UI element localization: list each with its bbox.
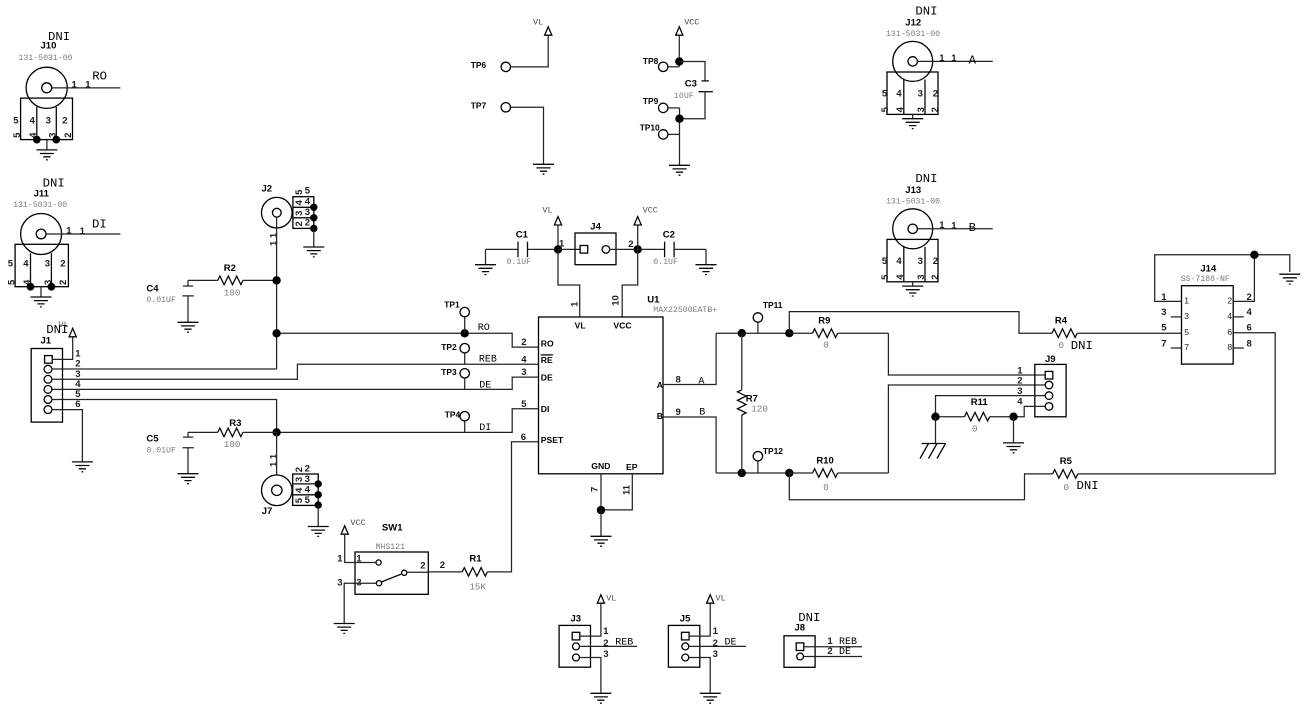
junction C3/ground node <box>675 115 683 123</box>
capacitor C2 0.1UF <box>638 230 706 268</box>
svg-text:VCC: VCC <box>643 205 658 215</box>
svg-text:C5: C5 <box>146 434 159 445</box>
svg-text:2: 2 <box>58 280 69 285</box>
ground at R11 <box>1003 443 1024 453</box>
svg-text:0: 0 <box>823 482 829 493</box>
test point TP2 <box>441 342 469 365</box>
wire U1 GND pin7 to ground <box>600 474 602 510</box>
svg-text:1 1: 1 1 <box>268 453 279 467</box>
ground at U1 <box>600 510 602 536</box>
svg-text:4: 4 <box>1017 397 1023 408</box>
wire VL rail to U1 pin1 <box>558 249 580 317</box>
test point TP11 <box>753 300 783 333</box>
ground at C2 <box>705 249 707 264</box>
ground at C4 <box>178 322 199 332</box>
svg-text:B: B <box>657 411 663 421</box>
svg-text:4: 4 <box>521 354 527 365</box>
svg-text:0.01UF: 0.01UF <box>146 447 176 456</box>
junction VL rail <box>554 245 562 253</box>
svg-text:5: 5 <box>1184 327 1189 337</box>
test point TP8 <box>643 56 679 72</box>
svg-text:2: 2 <box>933 89 938 100</box>
junction GND/EP <box>597 506 605 514</box>
svg-text:1 1: 1 1 <box>268 232 279 246</box>
svg-text:J14: J14 <box>1200 264 1217 275</box>
ground at SW1 <box>334 624 355 634</box>
junction A/TP11 <box>785 329 793 337</box>
svg-text:J3: J3 <box>571 613 582 624</box>
wire B bypass to R5 <box>789 473 1052 500</box>
junction R2/J2 node <box>272 276 280 284</box>
svg-text:3: 3 <box>1184 311 1189 321</box>
svg-text:A: A <box>969 54 977 68</box>
svg-text:VL: VL <box>716 594 726 604</box>
wire J2 pin1 vertical to RO net <box>276 217 278 369</box>
svg-text:MHS121: MHS121 <box>376 543 406 552</box>
svg-text:2: 2 <box>713 638 718 649</box>
capacitor C3 10UF <box>674 79 713 102</box>
svg-text:DI: DI <box>479 423 491 434</box>
svg-text:4: 4 <box>896 256 902 267</box>
junction A/R7 <box>738 329 746 337</box>
wire net DE (J1.4 / TP3 to U1 DE) <box>52 377 539 389</box>
svg-text:4: 4 <box>896 89 902 100</box>
svg-text:DNI: DNI <box>915 172 937 186</box>
svg-text:2: 2 <box>628 239 633 250</box>
svg-text:VCC: VCC <box>684 18 699 28</box>
wire J3 pin3 to ground <box>580 658 601 694</box>
svg-text:2: 2 <box>440 560 445 571</box>
svg-text:C4: C4 <box>146 284 159 295</box>
power VL at J5 <box>707 595 714 603</box>
svg-text:4: 4 <box>305 485 311 496</box>
resistor R5 0 DNI <box>1053 456 1099 493</box>
svg-text:3: 3 <box>46 115 51 126</box>
svg-text:5: 5 <box>13 115 19 126</box>
svg-text:5: 5 <box>880 274 891 280</box>
test point TP7 to ground <box>471 100 544 164</box>
wire SW1 pin3 to ground <box>344 583 376 623</box>
wire C3 to ground node <box>680 92 706 119</box>
junction B/R7 <box>738 469 746 477</box>
svg-text:8: 8 <box>676 375 681 386</box>
svg-text:8: 8 <box>1247 339 1252 350</box>
svg-text:3: 3 <box>713 649 718 660</box>
svg-text:1: 1 <box>66 226 72 237</box>
svg-text:2: 2 <box>63 133 74 138</box>
junction DI at R3 <box>272 428 280 436</box>
svg-text:3: 3 <box>916 275 927 280</box>
test point TP4 <box>445 409 470 432</box>
wire SW1 pin1 to VCC <box>345 534 376 562</box>
power VL at J3 <box>597 595 604 603</box>
svg-text:RO: RO <box>92 70 107 84</box>
wire J5 pin2 net DE <box>689 645 746 647</box>
junction RO at J2 column <box>272 329 280 337</box>
svg-text:TP7: TP7 <box>471 100 487 110</box>
jumper J4 <box>558 222 638 265</box>
svg-text:B: B <box>699 408 705 419</box>
svg-text:R4: R4 <box>1055 316 1068 327</box>
wire net REB (J1.3 / TP2 to U1 RE) <box>52 364 539 379</box>
svg-text:3: 3 <box>916 107 927 112</box>
svg-text:DE: DE <box>725 638 737 649</box>
svg-text:2: 2 <box>305 464 310 475</box>
svg-text:3: 3 <box>521 367 526 378</box>
svg-text:120: 120 <box>751 404 768 415</box>
power VCC at J4/C2 <box>634 217 641 225</box>
svg-text:R3: R3 <box>229 418 241 429</box>
svg-text:DNI: DNI <box>915 4 937 18</box>
connector J13 (BNC, DNI, 131-5031-00) net B <box>880 172 993 296</box>
svg-text:7: 7 <box>590 487 601 492</box>
svg-text:6: 6 <box>1247 323 1252 334</box>
svg-text:TP8: TP8 <box>643 56 659 66</box>
svg-text:1: 1 <box>85 80 91 91</box>
svg-text:1: 1 <box>337 554 343 565</box>
svg-text:3: 3 <box>918 89 923 100</box>
svg-text:C1: C1 <box>516 230 529 241</box>
wire J1 pin6 to ground <box>52 410 83 462</box>
svg-text:131-5031-00: 131-5031-00 <box>19 54 73 63</box>
svg-text:2: 2 <box>933 256 938 267</box>
wire R4 to J14 pin5 <box>1077 332 1181 334</box>
svg-text:3: 3 <box>305 207 310 218</box>
svg-text:J11: J11 <box>34 189 50 200</box>
svg-text:5: 5 <box>880 106 891 112</box>
svg-text:TP3: TP3 <box>441 367 457 377</box>
svg-text:R1: R1 <box>469 554 482 565</box>
test point TP9 <box>643 96 680 113</box>
svg-text:4: 4 <box>895 274 906 280</box>
connector J8 (2-pin header, DNI) <box>784 611 820 667</box>
svg-text:4: 4 <box>294 487 305 493</box>
svg-text:PSET: PSET <box>541 435 564 445</box>
svg-text:2: 2 <box>1017 375 1022 386</box>
connector J7 (SMB jack) <box>262 464 329 537</box>
svg-text:J8: J8 <box>795 623 806 634</box>
resistor R4 0 DNI <box>1052 316 1093 353</box>
wire net DI (J1.5 / J7 / TP4 to U1 DI) <box>52 400 277 433</box>
junction B/TP12 <box>785 469 793 477</box>
svg-text:4: 4 <box>1227 311 1232 321</box>
svg-text:2: 2 <box>62 115 67 126</box>
svg-text:J1: J1 <box>41 336 52 347</box>
svg-text:REB: REB <box>479 355 497 366</box>
wire J14 pin1 loop to ground <box>1155 255 1290 302</box>
resistor R9 0 <box>789 316 888 351</box>
test point TP6 to VL <box>471 35 548 71</box>
svg-text:TP10: TP10 <box>640 123 660 133</box>
wire U1 EP pin11 to ground <box>601 474 632 510</box>
svg-text:DNI: DNI <box>1077 479 1099 493</box>
wire J9 pin4 to R11 <box>1014 406 1046 416</box>
svg-text:2: 2 <box>294 221 305 226</box>
power VL at J1 <box>69 328 76 336</box>
svg-text:J13: J13 <box>905 185 921 196</box>
svg-text:0: 0 <box>1064 482 1070 493</box>
IC U1 MAX22500EATB+ <box>539 295 718 474</box>
resistor R2 100 <box>188 263 277 298</box>
svg-text:5: 5 <box>521 399 527 410</box>
svg-text:10UF: 10UF <box>674 92 694 101</box>
junction R11 left <box>931 413 939 421</box>
svg-text:DE: DE <box>541 373 553 383</box>
svg-text:4: 4 <box>895 106 906 112</box>
svg-text:0.01UF: 0.01UF <box>146 296 176 305</box>
wire J3 pin2 net REB <box>580 645 638 647</box>
svg-text:MAX22500EATB+: MAX22500EATB+ <box>653 306 717 315</box>
test point TP12 <box>753 446 783 473</box>
svg-text:5: 5 <box>294 189 305 195</box>
ground at J1 pin6 <box>72 462 93 472</box>
junction J14 ground net <box>1250 251 1258 259</box>
connector J12 (BNC, DNI, 131-5031-00) net A <box>880 4 993 128</box>
svg-text:J12: J12 <box>905 18 921 29</box>
svg-text:6: 6 <box>1227 327 1232 337</box>
svg-text:1: 1 <box>559 239 565 250</box>
svg-text:DI: DI <box>541 404 550 414</box>
test point TP10 <box>640 123 680 139</box>
resistor R1 15K <box>428 554 487 593</box>
svg-text:3: 3 <box>294 477 305 482</box>
svg-text:0: 0 <box>823 339 829 350</box>
svg-text:VCC: VCC <box>350 518 365 528</box>
wire DI to J7 <box>276 432 278 485</box>
wire A bypass to R4 <box>789 312 1052 334</box>
svg-text:9: 9 <box>676 407 681 418</box>
svg-text:SW1: SW1 <box>382 522 403 533</box>
svg-text:SS-7188-NF: SS-7188-NF <box>1181 275 1230 284</box>
svg-text:5: 5 <box>294 497 305 503</box>
resistor R10 0 <box>789 456 888 493</box>
svg-text:TP6: TP6 <box>471 60 487 70</box>
svg-text:TP4: TP4 <box>445 409 461 419</box>
svg-text:4: 4 <box>305 197 311 208</box>
wire J8 pin2 net DE <box>804 656 863 658</box>
svg-text:8: 8 <box>1227 342 1232 352</box>
svg-text:5: 5 <box>305 495 311 506</box>
svg-text:1: 1 <box>570 301 581 307</box>
svg-text:DE: DE <box>839 647 851 658</box>
svg-text:5: 5 <box>882 89 888 100</box>
ground at J14 <box>1279 274 1300 284</box>
svg-text:J10: J10 <box>41 40 57 51</box>
connector J5 (3-pin header) <box>668 613 718 667</box>
svg-text:5: 5 <box>8 258 14 269</box>
svg-text:R9: R9 <box>818 316 830 327</box>
svg-text:TP2: TP2 <box>441 342 457 352</box>
svg-text:5: 5 <box>305 186 311 197</box>
svg-text:3: 3 <box>1161 307 1166 318</box>
junction VCC/C3 <box>675 57 683 65</box>
power VL at TP6 <box>545 27 552 35</box>
svg-text:R2: R2 <box>224 263 236 274</box>
ground at TP7 <box>533 164 554 174</box>
svg-text:DNI: DNI <box>1071 339 1093 353</box>
svg-text:1: 1 <box>951 53 957 64</box>
svg-text:7: 7 <box>1161 339 1166 350</box>
wire J14 pin2 to ground net <box>1233 255 1254 302</box>
junction VCC rail <box>634 245 642 253</box>
wire U1 PSET to R1 <box>487 442 538 572</box>
capacitor C4 0.01UF <box>146 280 193 322</box>
connector J3 (3-pin header) <box>559 613 609 667</box>
svg-text:3: 3 <box>45 258 50 269</box>
connector J9 (4-pin header) <box>1017 354 1066 417</box>
svg-text:15K: 15K <box>469 581 486 592</box>
ground at C5 <box>178 474 199 484</box>
svg-text:5: 5 <box>882 256 888 267</box>
svg-text:3: 3 <box>337 578 342 589</box>
svg-text:1: 1 <box>951 221 957 232</box>
connector J1 (6-pin header, DNI) <box>31 320 81 422</box>
svg-text:J7: J7 <box>262 506 273 517</box>
svg-text:J2: J2 <box>262 184 273 195</box>
svg-text:2: 2 <box>827 646 832 657</box>
svg-text:131-5031-00: 131-5031-00 <box>886 30 940 39</box>
svg-text:2: 2 <box>603 638 608 649</box>
wire U1 A pin8 to bus <box>663 333 716 384</box>
svg-text:1: 1 <box>939 220 945 231</box>
capacitor C1 0.1UF <box>486 230 559 268</box>
svg-text:TP1: TP1 <box>444 300 460 310</box>
svg-text:6: 6 <box>75 399 80 410</box>
ground at C1 <box>485 249 487 264</box>
svg-text:R10: R10 <box>816 456 833 467</box>
connector J14 (SS-7188-NF) <box>1161 264 1252 365</box>
svg-text:1: 1 <box>1184 295 1189 305</box>
svg-text:2: 2 <box>1227 295 1232 305</box>
wire VCC to C3 <box>679 62 705 81</box>
capacitor C5 0.01UF <box>146 432 193 473</box>
resistor R11 0 <box>936 397 1014 434</box>
power VL at C1/J4 <box>554 217 561 225</box>
svg-text:2: 2 <box>294 467 305 472</box>
wire J3 pin1 to VL <box>580 603 601 636</box>
svg-text:2: 2 <box>521 337 526 348</box>
ground at TP10 <box>669 165 690 175</box>
svg-text:R11: R11 <box>971 397 989 408</box>
svg-text:3: 3 <box>918 256 923 267</box>
svg-text:RE: RE <box>541 355 553 365</box>
junction RO at TP1 <box>461 329 469 337</box>
svg-text:4: 4 <box>23 258 29 269</box>
svg-text:1: 1 <box>603 626 609 637</box>
wire R5 to J14 pin6 <box>1078 333 1275 474</box>
wire net RO (J1.2 / J2 / TP1 to U1 RO) <box>52 368 277 370</box>
wire J5 pin3 to ground <box>689 658 710 694</box>
svg-text:RO: RO <box>541 339 554 349</box>
svg-text:DE: DE <box>479 380 491 391</box>
svg-text:0.1UF: 0.1UF <box>653 258 678 267</box>
svg-text:U1: U1 <box>647 295 660 306</box>
chassis ground at R11 <box>920 444 946 459</box>
wire R11 right to ground <box>1013 417 1015 443</box>
svg-text:0.1UF: 0.1UF <box>507 258 532 267</box>
svg-text:100: 100 <box>224 287 241 298</box>
svg-text:2: 2 <box>420 560 425 571</box>
svg-text:2: 2 <box>930 275 941 280</box>
svg-text:1: 1 <box>939 53 945 64</box>
wire J9 pin3 to R11 <box>936 396 1046 417</box>
wire J5 pin1 to VL <box>689 603 710 636</box>
svg-text:3: 3 <box>603 649 608 660</box>
svg-text:R5: R5 <box>1060 456 1073 467</box>
svg-text:J5: J5 <box>680 613 691 624</box>
svg-text:VCC: VCC <box>613 320 631 330</box>
svg-text:11: 11 <box>621 484 632 495</box>
svg-text:2: 2 <box>930 107 941 112</box>
ground at J5 <box>700 693 721 703</box>
wire J8 pin1 net REB <box>804 646 862 648</box>
svg-text:4: 4 <box>294 199 305 205</box>
wire VCC rail to U1 pin10 <box>622 249 638 317</box>
svg-text:VL: VL <box>606 594 616 604</box>
svg-text:0: 0 <box>972 423 978 434</box>
test point TP1 <box>444 300 469 334</box>
svg-text:5: 5 <box>12 132 23 138</box>
svg-text:J9: J9 <box>1045 354 1056 365</box>
svg-text:C3: C3 <box>685 79 697 90</box>
svg-text:5: 5 <box>1161 323 1167 334</box>
svg-text:RO: RO <box>478 323 490 334</box>
svg-text:10: 10 <box>610 295 621 306</box>
power VCC at SW1 <box>341 526 348 534</box>
wire J1 pin1 to VL arrow <box>52 337 72 360</box>
svg-text:0: 0 <box>1059 340 1065 351</box>
resistor R7 120 termination <box>738 333 768 473</box>
connector J10 (BNC, DNI, 131-5031-00) net RO <box>12 30 120 160</box>
svg-text:DI: DI <box>92 218 107 232</box>
svg-text:7: 7 <box>1184 342 1189 352</box>
svg-text:TP12: TP12 <box>763 446 783 456</box>
wire net B to R10 <box>716 472 789 474</box>
svg-text:REB: REB <box>615 638 633 649</box>
wire R10 to J9 pin2 <box>888 385 1045 473</box>
connector J2 (SMB jack) <box>262 184 325 257</box>
svg-text:1: 1 <box>72 79 78 90</box>
power VCC at TP8 <box>676 27 683 35</box>
ground at J3 <box>590 693 611 703</box>
svg-text:B: B <box>969 221 976 235</box>
wire TP9 node to ground <box>679 108 681 165</box>
svg-text:VL: VL <box>542 205 552 215</box>
wire R11 left to chassis ground <box>935 417 937 444</box>
svg-text:A: A <box>698 377 704 388</box>
svg-text:VL: VL <box>533 17 543 27</box>
svg-text:TP9: TP9 <box>643 96 659 106</box>
svg-text:2: 2 <box>305 218 310 229</box>
connector J11 (BNC, DNI, 131-5031-00) net DI <box>7 176 121 307</box>
wire R9 to J9 pin1 <box>888 333 1045 375</box>
svg-text:GND: GND <box>591 461 610 471</box>
svg-text:C2: C2 <box>663 230 675 241</box>
wire U1 B pin9 to bus <box>663 417 716 473</box>
test point TP3 <box>441 367 469 390</box>
svg-text:EP: EP <box>626 462 638 472</box>
svg-text:1: 1 <box>80 226 86 237</box>
svg-text:TP11: TP11 <box>763 300 783 310</box>
svg-text:131-5031-00: 131-5031-00 <box>886 198 940 207</box>
svg-text:100: 100 <box>224 439 241 450</box>
svg-text:A: A <box>657 380 663 390</box>
svg-text:VL: VL <box>575 320 586 330</box>
svg-text:3: 3 <box>294 211 305 216</box>
svg-text:5: 5 <box>7 279 18 285</box>
svg-text:4: 4 <box>1247 307 1253 318</box>
switch SW1 MHS121 <box>337 522 445 594</box>
